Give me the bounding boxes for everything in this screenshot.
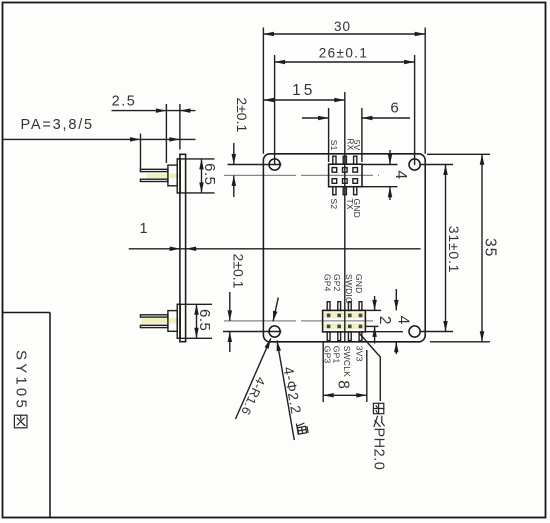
svg-text:31±0.1: 31±0.1 bbox=[446, 226, 462, 274]
svg-text:2±0.1: 2±0.1 bbox=[230, 254, 246, 289]
svg-text:GP2: GP2 bbox=[332, 274, 342, 292]
svg-text:SY105: SY105 bbox=[13, 350, 30, 411]
svg-text:6.5: 6.5 bbox=[196, 309, 213, 331]
svg-text:35: 35 bbox=[481, 238, 498, 257]
svg-text:4: 4 bbox=[394, 316, 411, 325]
svg-text:2: 2 bbox=[376, 316, 393, 325]
svg-text:2.5: 2.5 bbox=[112, 94, 137, 110]
svg-text:GP4: GP4 bbox=[323, 274, 333, 292]
svg-text:2±0.1: 2±0.1 bbox=[234, 97, 250, 132]
svg-text:SWDIO: SWDIO bbox=[344, 274, 354, 304]
svg-text:GND: GND bbox=[354, 274, 364, 294]
svg-text:S2: S2 bbox=[329, 199, 339, 210]
svg-text:GP1: GP1 bbox=[332, 346, 342, 364]
svg-text:PH2.0: PH2.0 bbox=[371, 428, 387, 471]
svg-text:26±0.1: 26±0.1 bbox=[319, 46, 369, 61]
svg-text:4: 4 bbox=[392, 170, 409, 179]
svg-text:30: 30 bbox=[334, 19, 351, 34]
svg-text:S1: S1 bbox=[329, 140, 339, 151]
svg-text:6.5: 6.5 bbox=[201, 163, 218, 185]
svg-text:GP3: GP3 bbox=[323, 346, 333, 364]
svg-text:3V3: 3V3 bbox=[354, 346, 364, 362]
svg-text:1: 1 bbox=[139, 221, 147, 237]
svg-text:6: 6 bbox=[390, 100, 398, 117]
svg-text:15: 15 bbox=[292, 82, 315, 99]
svg-text:8: 8 bbox=[335, 380, 352, 389]
svg-text:5V: 5V bbox=[352, 140, 362, 151]
svg-text:GND: GND bbox=[352, 199, 362, 219]
svg-text:PA=3,8/5: PA=3,8/5 bbox=[21, 117, 94, 133]
svg-text:SWCLK: SWCLK bbox=[342, 346, 352, 377]
